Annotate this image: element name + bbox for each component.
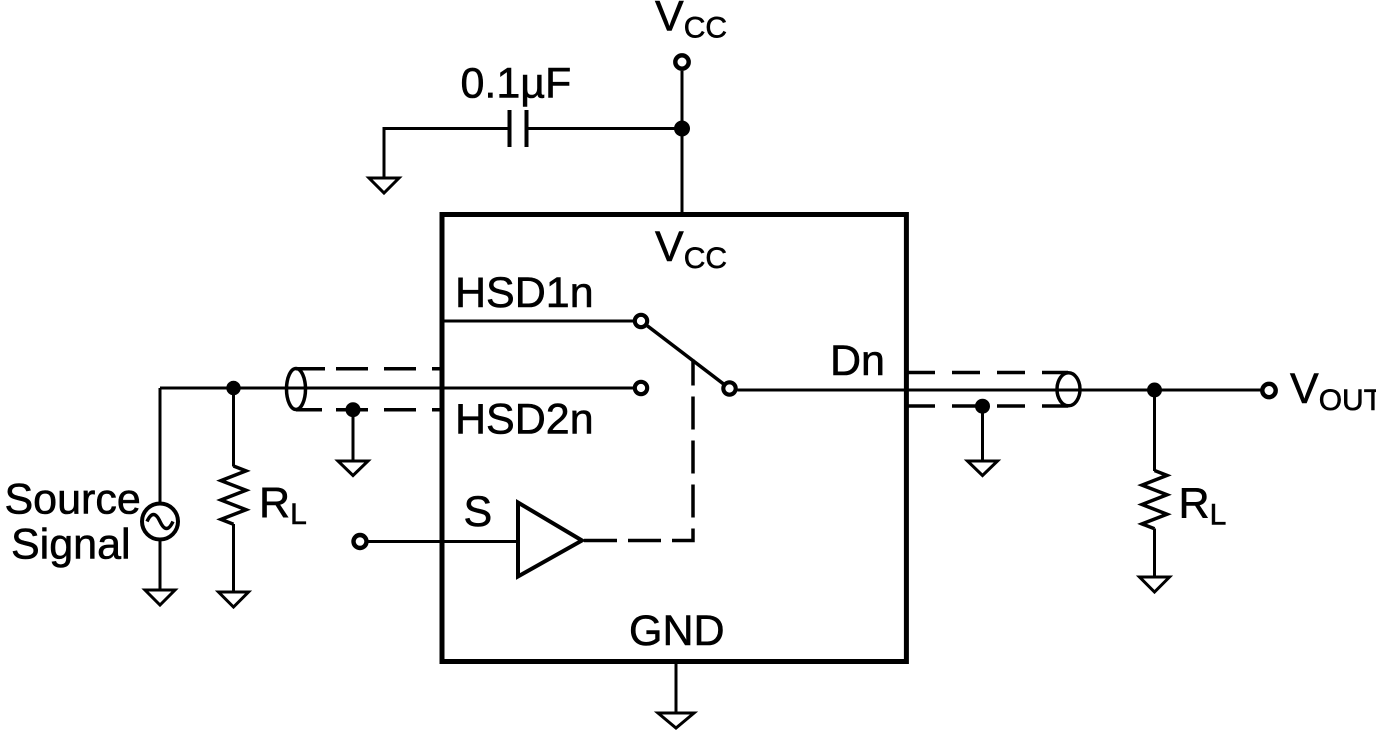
wire VCC terminal to box top — [681, 71, 684, 215]
junction left shield — [346, 402, 361, 417]
node VCC terminal — [675, 55, 688, 68]
wire junction to capacitor right plate — [529, 127, 683, 130]
coax shield left ellipse — [287, 369, 306, 410]
ground (left shield) — [338, 461, 368, 476]
wire input drop to AC source — [159, 388, 162, 504]
coax shield left top solid — [296, 367, 325, 371]
switch throw contact HSD2n — [635, 382, 647, 394]
resistor RL (input) — [221, 466, 246, 524]
IC box U1 — [442, 215, 906, 662]
capacitor C1 0.1uF — [510, 110, 527, 147]
junction output/RL — [1147, 383, 1162, 398]
switch pole contact Dn — [723, 382, 735, 394]
svg-text:S: S — [464, 488, 493, 536]
wire output RL to ground — [1153, 529, 1156, 578]
svg-text:Dn: Dn — [830, 337, 885, 385]
coax shield left bottom solid — [296, 408, 322, 412]
wire S input — [369, 540, 519, 543]
node VOUT terminal — [1262, 384, 1275, 397]
buffer S driver — [518, 503, 582, 577]
ground (output RL) — [1140, 577, 1170, 592]
node S terminal — [354, 535, 367, 548]
AC source Source Signal — [142, 504, 178, 540]
dashed control line switch — [584, 360, 693, 541]
wire AC source to ground — [159, 539, 162, 590]
wire capacitor left plate to corner — [384, 129, 508, 179]
svg-text:0.1µF: 0.1µF — [461, 60, 572, 108]
junction VCC/cap — [674, 121, 690, 137]
wire Dn to VOUT — [737, 389, 1262, 392]
ground (input RL) — [219, 592, 249, 607]
switch throw contact HSD1n — [635, 315, 647, 327]
svg-text:GND: GND — [629, 607, 725, 655]
svg-text:HSD1n: HSD1n — [455, 269, 594, 317]
wire junction to RL — [232, 388, 235, 467]
wire RL to ground — [232, 524, 235, 592]
wire GND pin — [675, 662, 678, 714]
wire junction to RL (output) — [1153, 390, 1156, 471]
junction input/RL — [226, 381, 240, 395]
ground (GND pin) — [658, 713, 694, 728]
ground (AC source) — [145, 590, 175, 605]
junction right shield — [975, 399, 990, 414]
svg-text:HSD2n: HSD2n — [455, 396, 594, 444]
coax shield left bottom dashed — [336, 408, 442, 412]
ground (capacitor) — [369, 178, 399, 193]
wire source to HSD2n contact — [160, 387, 633, 390]
wire HSD1n — [442, 320, 633, 323]
wire right shield to ground — [981, 406, 984, 461]
coax shield right top dashed — [907, 371, 1068, 375]
svg-text:Signal: Signal — [11, 520, 131, 568]
svg-text:Source: Source — [5, 476, 141, 524]
ground (right shield) — [968, 461, 998, 476]
wire left shield to ground — [352, 410, 355, 461]
switch arm — [647, 326, 723, 384]
coax shield right ellipse — [1057, 373, 1080, 406]
coax shield left top dashed — [336, 367, 442, 371]
resistor RL (output) — [1142, 471, 1167, 529]
coax shield right bottom dashed — [907, 404, 1068, 408]
